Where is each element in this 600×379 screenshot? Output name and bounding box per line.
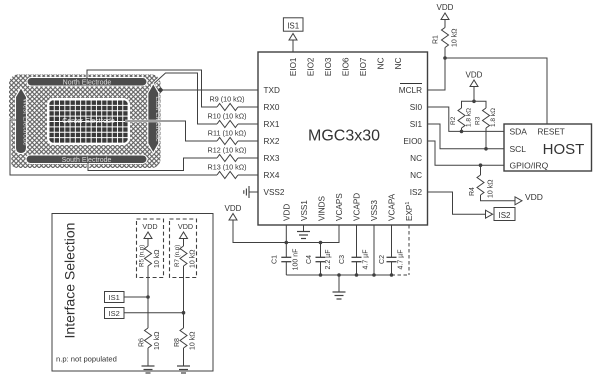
svg-text:R12 (10 kΩ): R12 (10 kΩ) <box>208 146 247 155</box>
svg-text:SCL: SCL <box>510 144 527 154</box>
svg-text:RX2: RX2 <box>264 137 280 146</box>
svg-text:VSS1: VSS1 <box>300 200 309 221</box>
svg-text:West Electrode: West Electrode <box>22 98 29 145</box>
svg-text:NC: NC <box>394 57 403 69</box>
svg-text:VINDS: VINDS <box>318 195 327 221</box>
svg-text:Interface Selection: Interface Selection <box>62 223 78 339</box>
svg-text:C4: C4 <box>306 255 313 264</box>
svg-text:100 nF: 100 nF <box>293 249 300 271</box>
svg-text:R11 (10 kΩ): R11 (10 kΩ) <box>208 129 246 138</box>
svg-text:R5 (n.p): R5 (n.p) <box>139 245 146 267</box>
svg-text:SI1: SI1 <box>410 120 423 129</box>
svg-text:HOST: HOST <box>543 141 585 158</box>
svg-text:RX0: RX0 <box>264 103 280 112</box>
svg-text:R2: R2 <box>450 116 457 125</box>
svg-text:VDD: VDD <box>466 71 483 80</box>
svg-text:R3: R3 <box>475 116 482 125</box>
svg-text:NC: NC <box>410 154 422 163</box>
svg-text:n.p: not populated: n.p: not populated <box>56 355 117 364</box>
svg-text:R9 (10 kΩ): R9 (10 kΩ) <box>210 95 245 104</box>
svg-text:10 kΩ: 10 kΩ <box>154 332 161 350</box>
svg-text:R10 (10 kΩ): R10 (10 kΩ) <box>208 112 247 121</box>
svg-text:North Electrode: North Electrode <box>63 80 112 87</box>
svg-text:East Electrode: East Electrode <box>154 96 161 142</box>
svg-text:NC: NC <box>410 171 422 180</box>
svg-text:EIO6: EIO6 <box>342 57 351 76</box>
svg-text:VDD: VDD <box>437 3 454 12</box>
svg-text:4.7 µF: 4.7 µF <box>363 250 370 270</box>
svg-text:EIO2: EIO2 <box>307 57 316 76</box>
svg-text:VCAPS: VCAPS <box>335 193 344 221</box>
svg-text:IS2: IS2 <box>109 309 120 318</box>
svg-text:VSS2: VSS2 <box>264 188 285 197</box>
svg-text:RX3: RX3 <box>264 154 280 163</box>
svg-text:C3: C3 <box>339 255 346 264</box>
svg-text:EIO0: EIO0 <box>403 137 422 146</box>
svg-text:VCAPD: VCAPD <box>353 193 362 221</box>
svg-text:R13 (10 kΩ): R13 (10 kΩ) <box>208 163 247 172</box>
svg-text:RX1: RX1 <box>264 120 280 129</box>
svg-text:1.8 kΩ: 1.8 kΩ <box>490 108 497 127</box>
svg-text:NC: NC <box>377 57 386 69</box>
svg-text:IS1: IS1 <box>109 293 120 302</box>
svg-text:R4: R4 <box>469 187 476 196</box>
svg-text:C2: C2 <box>379 255 386 264</box>
svg-text:IS2: IS2 <box>410 188 423 197</box>
svg-text:MGC3x30: MGC3x30 <box>308 128 380 145</box>
svg-text:SDA: SDA <box>510 127 528 137</box>
svg-text:VCAPA: VCAPA <box>388 193 397 221</box>
svg-text:VDD: VDD <box>525 192 543 202</box>
svg-text:IS2: IS2 <box>498 211 511 220</box>
svg-text:10 kΩ: 10 kΩ <box>190 332 197 350</box>
svg-text:10 kΩ: 10 kΩ <box>488 180 495 198</box>
svg-text:EIO1: EIO1 <box>289 57 298 76</box>
svg-text:South Electrode: South Electrode <box>62 157 112 164</box>
svg-text:GPIO/IRQ: GPIO/IRQ <box>510 161 549 171</box>
svg-text:10 kΩ: 10 kΩ <box>190 250 197 268</box>
svg-text:R6: R6 <box>139 338 146 347</box>
svg-text:VDD: VDD <box>225 204 242 213</box>
svg-text:EIO3: EIO3 <box>324 57 333 76</box>
svg-text:1.8 kΩ: 1.8 kΩ <box>466 108 473 127</box>
svg-text:VSS3: VSS3 <box>370 200 379 221</box>
svg-text:2.2 µF: 2.2 µF <box>325 250 332 270</box>
svg-text:10 kΩ: 10 kΩ <box>154 250 161 268</box>
svg-text:R7 (n.p): R7 (n.p) <box>174 245 181 267</box>
svg-text:IS1: IS1 <box>287 21 300 30</box>
svg-text:10 kΩ: 10 kΩ <box>452 29 459 47</box>
svg-text:TXD: TXD <box>264 86 280 95</box>
svg-text:VDD: VDD <box>178 222 193 231</box>
svg-text:VDD: VDD <box>142 222 157 231</box>
svg-text:4.7 µF: 4.7 µF <box>398 250 405 270</box>
svg-text:R8: R8 <box>174 338 181 347</box>
svg-text:MCLR: MCLR <box>399 86 422 95</box>
svg-text:EIO7: EIO7 <box>359 57 368 76</box>
svg-text:SI0: SI0 <box>410 103 423 112</box>
svg-text:RESET: RESET <box>538 128 565 137</box>
svg-text:RX4: RX4 <box>264 171 280 180</box>
svg-text:R1: R1 <box>433 35 440 44</box>
svg-text:Center Electrode: Center Electrode <box>62 118 115 125</box>
svg-text:VDD: VDD <box>282 204 291 221</box>
svg-text:C1: C1 <box>272 255 279 264</box>
